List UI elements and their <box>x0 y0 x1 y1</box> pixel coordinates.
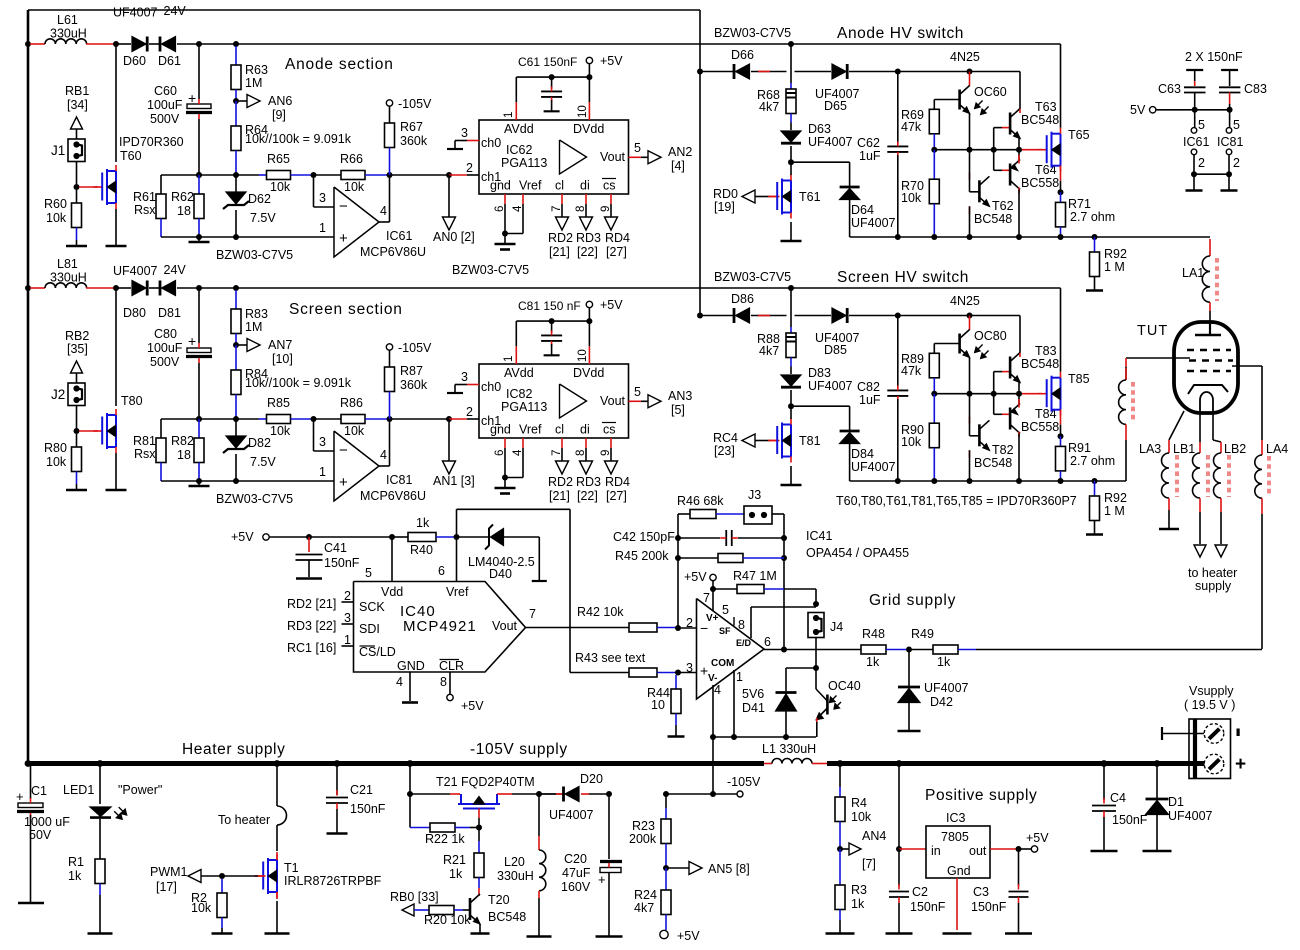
svg-text:4: 4 <box>380 448 387 462</box>
resistor R71 2.7 ohm <box>1060 192 1062 202</box>
resistor R82 <box>196 416 202 422</box>
svg-text:10k//100k = 9.091k: 10k//100k = 9.091k <box>245 132 352 146</box>
zener diode D62 <box>235 175 237 192</box>
svg-text:MCP6V86U: MCP6V86U <box>360 489 426 503</box>
svg-text:R85: R85 <box>267 396 290 410</box>
svg-text:R3: R3 <box>851 883 867 897</box>
pin 10 DVdd <box>588 321 590 346</box>
ground <box>1005 932 1032 935</box>
svg-text:MCP4921: MCP4921 <box>403 618 477 635</box>
svg-text:RC1 [16]: RC1 [16] <box>287 641 336 655</box>
ground <box>212 932 233 935</box>
zener diode D61 <box>159 37 162 52</box>
svg-text:di: di <box>580 179 590 193</box>
svg-text:R48: R48 <box>862 627 885 641</box>
svg-text:[19]: [19] <box>714 200 735 214</box>
diode D64 <box>840 186 860 189</box>
svg-text:UF4007: UF4007 <box>924 681 969 695</box>
svg-text:C2: C2 <box>912 885 928 899</box>
svg-text:D83: D83 <box>808 366 831 380</box>
svg-text:C1: C1 <box>31 784 47 798</box>
ground <box>527 935 552 938</box>
resistor R20 10k <box>429 906 454 915</box>
wire mid row <box>934 393 1021 395</box>
wire minus lead <box>1162 733 1204 735</box>
pin 4 GND <box>409 672 411 701</box>
svg-text:2.7 ohm: 2.7 ohm <box>1070 210 1115 224</box>
ground <box>943 932 972 935</box>
svg-text:L1 330uH: L1 330uH <box>762 742 816 756</box>
ground <box>198 481 200 486</box>
svg-text:6: 6 <box>494 206 506 212</box>
node T61 drain <box>788 403 794 409</box>
svg-text:5V6: 5V6 <box>742 687 764 701</box>
arrow AN5 [8] <box>689 862 702 875</box>
ground <box>327 832 348 835</box>
svg-text:di: di <box>580 423 590 437</box>
svg-text:L81: L81 <box>57 257 78 271</box>
svg-text:+: + <box>700 663 708 679</box>
inductor LB1 <box>1199 411 1201 442</box>
svg-text:D42: D42 <box>930 695 953 709</box>
junction <box>446 172 452 178</box>
svg-text:1000 uF: 1000 uF <box>24 815 70 829</box>
transistor T84 BC558 <box>993 394 995 415</box>
svg-text:R4: R4 <box>851 796 867 810</box>
node gate <box>74 428 80 434</box>
ground <box>668 735 685 738</box>
capacitor C63 <box>1186 69 1203 71</box>
wire output row <box>764 649 861 651</box>
diode D85 <box>795 315 832 317</box>
svg-text:R42 10k: R42 10k <box>577 605 624 619</box>
svg-text:Vsupply: Vsupply <box>1189 684 1234 698</box>
svg-text:cl: cl <box>555 423 564 437</box>
node R48 R49 <box>906 647 912 653</box>
terminal -105V <box>737 791 743 797</box>
svg-text:9: 9 <box>600 206 612 212</box>
svg-text:AN7: AN7 <box>268 338 292 352</box>
resistor R23 200k <box>663 791 669 797</box>
svg-text:AN5 [8]: AN5 [8] <box>708 862 750 876</box>
mosfet T85 <box>1022 393 1042 395</box>
svg-text:cs: cs <box>603 423 616 437</box>
svg-text:1M: 1M <box>245 320 262 334</box>
svg-text:T81: T81 <box>799 434 821 448</box>
pin 4 Vref <box>522 438 524 448</box>
node T65 source <box>1058 433 1064 439</box>
diode D42 UF4007 <box>908 650 910 687</box>
svg-text:Anode HV switch: Anode HV switch <box>837 25 964 42</box>
svg-text:T60: T60 <box>120 149 142 163</box>
svg-text:1uF: 1uF <box>859 393 881 407</box>
svg-text:BC548: BC548 <box>488 910 526 924</box>
svg-text:4: 4 <box>512 449 524 456</box>
svg-text:IC61: IC61 <box>386 229 412 243</box>
wire bottom rail <box>850 236 1210 238</box>
terminal -105V R87 <box>386 344 392 350</box>
svg-text:[9]: [9] <box>272 108 286 122</box>
node AN arrow AN1 [3] <box>448 419 450 462</box>
svg-text:4: 4 <box>380 204 387 218</box>
resistor R22 1k <box>409 794 411 828</box>
transistor T20 BC548 <box>469 898 472 920</box>
junction <box>233 41 239 47</box>
svg-text:2 X 150nF: 2 X 150nF <box>1185 50 1243 64</box>
resistor R1 1k <box>95 859 105 884</box>
svg-text:8: 8 <box>738 618 745 632</box>
wire anode HV feed <box>236 43 1061 45</box>
svg-text:1: 1 <box>736 670 743 684</box>
junction <box>233 172 239 178</box>
resistor R44 10 <box>675 675 677 689</box>
svg-text:PGA113: PGA113 <box>501 400 547 414</box>
svg-text:T61: T61 <box>799 190 821 204</box>
svg-text:R62: R62 <box>171 190 194 204</box>
node AN tap AN6 <box>233 98 239 104</box>
svg-text:330uH: 330uH <box>50 271 87 285</box>
svg-text:47k: 47k <box>901 364 922 378</box>
svg-text:500V: 500V <box>150 355 180 369</box>
wire right feedback vertical <box>783 514 785 650</box>
op-amp IC41 OPA454 <box>697 599 765 700</box>
junction Vdd <box>389 534 395 540</box>
svg-text:Gnd: Gnd <box>947 864 971 878</box>
svg-text:RD3: RD3 <box>576 475 601 489</box>
svg-text:J2: J2 <box>51 387 65 402</box>
resistor R62 <box>196 172 202 178</box>
node AN4 <box>837 846 843 852</box>
svg-text:[23]: [23] <box>714 444 735 458</box>
svg-text:UF4007: UF4007 <box>549 808 594 822</box>
svg-text:2: 2 <box>344 589 351 603</box>
pin 7 cl RD2 <box>561 438 563 448</box>
junction <box>387 416 393 422</box>
svg-text:+5V: +5V <box>231 530 254 544</box>
svg-text:R67: R67 <box>400 120 423 134</box>
svg-text:( 19.5 V ): ( 19.5 V ) <box>1184 698 1235 712</box>
svg-text:cl: cl <box>555 179 564 193</box>
svg-text:Vref: Vref <box>446 585 469 599</box>
svg-text:D1: D1 <box>1168 795 1184 809</box>
ground <box>1143 850 1172 853</box>
wire OC emitter <box>969 114 971 150</box>
svg-text:E/D: E/D <box>736 638 752 648</box>
svg-text:5: 5 <box>1198 118 1205 132</box>
svg-text:Vref: Vref <box>519 179 542 193</box>
tube grid rows <box>1187 349 1231 351</box>
svg-text:2: 2 <box>1198 156 1205 170</box>
pin 7 cl RD2 <box>561 194 563 204</box>
node C83 <box>1227 107 1233 113</box>
svg-text:1k: 1k <box>416 516 430 530</box>
svg-text:R65: R65 <box>267 152 290 166</box>
svg-text:AN4: AN4 <box>862 829 886 843</box>
LED LED1 <box>97 760 104 767</box>
pin 6 gnd <box>504 194 506 204</box>
svg-text:C42 150pF: C42 150pF <box>613 530 675 544</box>
svg-text:3: 3 <box>461 126 468 140</box>
svg-text:1: 1 <box>344 633 351 647</box>
ground <box>790 466 792 485</box>
svg-text:2: 2 <box>466 405 473 419</box>
terminal +5V <box>660 930 668 938</box>
mosfet T81 <box>755 440 770 442</box>
svg-text:RB1: RB1 <box>65 84 89 98</box>
svg-text:R46 68k: R46 68k <box>677 494 724 508</box>
svg-text:4k7: 4k7 <box>759 100 779 114</box>
svg-text:Screen HV switch: Screen HV switch <box>837 269 969 286</box>
svg-text:[21]: [21] <box>549 489 570 503</box>
junction <box>387 172 393 178</box>
node J4 top <box>813 601 819 607</box>
tube cathode <box>1188 385 1228 394</box>
wire IC3 in column <box>896 760 903 767</box>
resistor R69 47k <box>929 109 939 134</box>
ground <box>88 932 113 935</box>
svg-text:47uF: 47uF <box>562 866 591 880</box>
wire T21 drain row <box>512 793 556 795</box>
svg-text:PGA113: PGA113 <box>501 156 547 170</box>
svg-text:+5V: +5V <box>600 54 623 68</box>
resistor R64 <box>235 101 237 126</box>
svg-text:Vdd: Vdd <box>381 585 403 599</box>
svg-text:J3: J3 <box>748 488 761 502</box>
svg-text:10k: 10k <box>46 455 67 469</box>
svg-text:C83: C83 <box>1244 82 1267 96</box>
svg-text:5V: 5V <box>1130 103 1146 117</box>
svg-text:10k: 10k <box>344 180 365 194</box>
svg-text:-105V: -105V <box>398 341 432 355</box>
svg-text:PWM1: PWM1 <box>150 865 188 879</box>
svg-text:R21: R21 <box>443 853 466 867</box>
svg-text:7: 7 <box>529 607 536 621</box>
svg-text:Vout: Vout <box>600 394 626 408</box>
pin 4 Vref <box>522 194 524 204</box>
svg-text:L61: L61 <box>57 13 78 27</box>
pin 1 AVdd <box>515 77 517 102</box>
diode D63 <box>790 123 792 131</box>
diode D65 <box>795 71 832 73</box>
junction <box>233 285 239 291</box>
svg-text:6: 6 <box>438 564 445 578</box>
mosfet T60 <box>79 186 98 188</box>
svg-text:C80: C80 <box>154 327 177 341</box>
junction <box>311 172 317 178</box>
svg-text:[17]: [17] <box>156 880 177 894</box>
svg-text:OC60: OC60 <box>974 85 1007 99</box>
svg-text:RD2: RD2 <box>548 475 573 489</box>
ground <box>504 234 506 245</box>
pin 6 gnd <box>504 438 506 448</box>
svg-text:ch0: ch0 <box>481 380 501 394</box>
svg-text:T65: T65 <box>1068 128 1090 142</box>
svg-text:7.5V: 7.5V <box>250 455 276 469</box>
ground <box>1193 174 1195 190</box>
svg-text:100uF: 100uF <box>147 341 183 355</box>
svg-text:8: 8 <box>440 675 447 689</box>
svg-text:UF4007: UF4007 <box>1168 809 1213 823</box>
svg-text:R43 see text: R43 see text <box>575 651 646 665</box>
svg-text:IPD70R360: IPD70R360 <box>119 135 184 149</box>
svg-text:10k: 10k <box>191 901 212 915</box>
svg-text:3: 3 <box>319 435 326 449</box>
svg-text:BC548: BC548 <box>974 212 1012 226</box>
node main wire anode <box>25 41 31 47</box>
svg-text:150nF: 150nF <box>350 802 386 816</box>
svg-text:RD4: RD4 <box>605 231 630 245</box>
tube heater <box>1200 392 1213 411</box>
svg-text:T82: T82 <box>992 443 1014 457</box>
svg-text:1k: 1k <box>937 655 951 669</box>
svg-text:R82: R82 <box>171 434 194 448</box>
svg-text:1k: 1k <box>851 897 865 911</box>
svg-text:+: + <box>16 789 24 804</box>
svg-text:200k: 200k <box>629 832 657 846</box>
junction <box>233 234 239 240</box>
zener diode D82 <box>235 419 237 436</box>
svg-text:AN0 [2]: AN0 [2] <box>433 230 475 244</box>
svg-text:IC3: IC3 <box>946 811 966 825</box>
svg-text:R45 200k: R45 200k <box>615 549 669 563</box>
wire OC emitter <box>969 358 971 394</box>
node main wire screen <box>25 285 31 291</box>
svg-text:1: 1 <box>503 112 515 118</box>
svg-text:D64: D64 <box>851 203 874 217</box>
svg-text:2.7 ohm: 2.7 ohm <box>1070 454 1115 468</box>
svg-text:IC81: IC81 <box>1217 135 1243 149</box>
capacitor C4 150nF <box>1101 760 1108 767</box>
svg-text:[27]: [27] <box>606 489 627 503</box>
svg-text:[4]: [4] <box>671 159 685 173</box>
tube TUT envelope <box>1174 322 1238 413</box>
wire J4 bottom <box>815 638 817 669</box>
node IC3 in <box>896 846 902 852</box>
svg-text:cs: cs <box>603 179 616 193</box>
svg-text:BZW03-C7V5: BZW03-C7V5 <box>452 263 529 277</box>
ground <box>265 932 290 935</box>
pin 7 Vout wire <box>526 627 630 629</box>
svg-text:10: 10 <box>577 349 589 362</box>
svg-text:+: + <box>1235 754 1246 775</box>
svg-text:AVdd: AVdd <box>504 122 534 136</box>
ground <box>115 453 117 490</box>
svg-text:[21]: [21] <box>549 245 570 259</box>
svg-text:D80: D80 <box>123 306 146 320</box>
svg-text:LA4: LA4 <box>1266 442 1288 456</box>
resistor R81 <box>160 419 162 438</box>
svg-text:BC548: BC548 <box>1021 357 1059 371</box>
svg-text:COM: COM <box>711 658 734 669</box>
svg-text:2: 2 <box>1233 156 1240 170</box>
svg-text:6: 6 <box>764 635 771 649</box>
svg-text:−: − <box>339 442 348 459</box>
resistor R2 10k <box>221 879 223 893</box>
svg-text:330uH: 330uH <box>50 27 87 41</box>
svg-text:3: 3 <box>686 661 693 675</box>
svg-text:BZW03-C7V5: BZW03-C7V5 <box>714 270 791 284</box>
svg-text:1 M: 1 M <box>1104 504 1125 518</box>
svg-text:8: 8 <box>575 450 587 456</box>
svg-text:DVdd: DVdd <box>573 122 604 136</box>
svg-text:out: out <box>969 844 987 858</box>
svg-text:BZW03-C7V5: BZW03-C7V5 <box>216 248 293 262</box>
svg-text:330uH: 330uH <box>497 869 534 883</box>
svg-text:MCP6V86U: MCP6V86U <box>360 245 426 259</box>
svg-text:C82: C82 <box>857 380 880 394</box>
svg-text:4N25: 4N25 <box>950 50 980 64</box>
inductor LB2 <box>1212 411 1214 440</box>
transistor T64 BC558 <box>993 150 995 171</box>
svg-text:10k: 10k <box>851 810 872 824</box>
ground <box>1086 289 1103 292</box>
wire bottom row V- <box>713 736 816 738</box>
IC IC40 MCP4921 <box>354 582 526 673</box>
svg-text:1k: 1k <box>866 655 880 669</box>
transistor T63 BC548 <box>993 128 995 150</box>
svg-text:1: 1 <box>503 356 515 362</box>
node Vref <box>454 534 460 540</box>
wire bottom rail <box>161 480 334 482</box>
svg-text:IRLR8726TRPBF: IRLR8726TRPBF <box>284 874 382 888</box>
diode D60 <box>132 37 146 52</box>
ground <box>1091 850 1118 853</box>
svg-text:RC4: RC4 <box>713 431 738 445</box>
capacitor C41 150nF <box>308 537 310 552</box>
svg-text:RD3: RD3 <box>576 231 601 245</box>
svg-text:D60: D60 <box>123 54 146 68</box>
svg-text:5: 5 <box>634 141 641 155</box>
ground <box>198 237 200 242</box>
svg-text:4: 4 <box>396 675 403 689</box>
svg-text:D81: D81 <box>158 306 181 320</box>
svg-text:gnd: gnd <box>490 423 511 437</box>
svg-text:AN3: AN3 <box>668 389 692 403</box>
svg-text:R22 1k: R22 1k <box>425 832 465 846</box>
IC IC82 PGA113 <box>479 364 629 438</box>
node AN tap AN7 <box>233 342 239 348</box>
wire screen grid lead <box>1126 357 1190 359</box>
svg-text:1 M: 1 M <box>1104 260 1125 274</box>
IC IC62 PGA113 <box>479 120 629 194</box>
svg-text:AN2: AN2 <box>668 145 692 159</box>
terminal block Vsupply <box>1189 719 1231 779</box>
svg-text:1M: 1M <box>245 76 262 90</box>
ground <box>1086 533 1103 536</box>
svg-text:7: 7 <box>703 591 710 605</box>
svg-text:47k: 47k <box>901 120 922 134</box>
resistor R88 4k7 <box>790 327 792 333</box>
ground <box>1228 174 1230 190</box>
svg-text:RB2: RB2 <box>65 329 89 343</box>
resistor R67 <box>385 123 395 148</box>
wire heater bus <box>28 761 764 766</box>
ground <box>471 932 490 935</box>
wire screen HV feed <box>236 287 1061 289</box>
svg-text:10: 10 <box>577 105 589 118</box>
pin 8 di RD3 <box>585 194 587 204</box>
svg-text:UF4007: UF4007 <box>808 135 853 149</box>
svg-text:UF4007: UF4007 <box>113 6 158 20</box>
svg-text:−: − <box>700 620 708 636</box>
svg-text:D65: D65 <box>824 99 847 113</box>
wire inverting input <box>313 175 315 207</box>
svg-text:To heater: To heater <box>218 813 270 827</box>
svg-text:7: 7 <box>551 450 563 456</box>
svg-text:R86: R86 <box>340 396 363 410</box>
jumper J2 <box>68 383 85 406</box>
wire output <box>379 465 390 467</box>
